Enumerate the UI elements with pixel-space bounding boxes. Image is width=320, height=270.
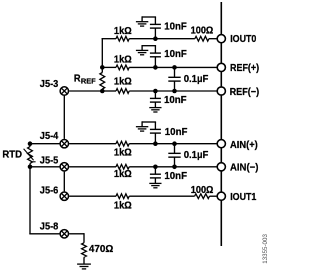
node junction rail row2 xyxy=(100,65,105,70)
label 1k row3 xyxy=(114,77,132,88)
svg-text:10nF: 10nF xyxy=(164,171,187,182)
label RTD xyxy=(2,149,22,160)
capacitor 0.1uF rows4-5 xyxy=(168,141,180,169)
label REF(+) xyxy=(230,63,259,74)
resistor 100 ohm row6 xyxy=(195,194,210,199)
wire row3 right segment xyxy=(129,90,217,92)
wire row6 middle segment xyxy=(129,195,194,197)
svg-text:J5-4: J5-4 xyxy=(40,131,59,142)
resistor RREF vertical xyxy=(100,67,105,91)
wire J5-5 to J5-6 xyxy=(63,172,65,192)
resistor 100 ohm row1 xyxy=(195,36,209,41)
wire row5 rail to J5-5 xyxy=(30,166,60,168)
capacitor 10nF row3 with ground below xyxy=(149,89,161,112)
terminal IOUT1 xyxy=(217,192,225,200)
capacitor 10nF row1 with ground xyxy=(136,16,161,41)
svg-text:100Ω: 100Ω xyxy=(191,185,214,196)
label 1k row1 xyxy=(114,26,132,37)
svg-text:J5-5: J5-5 xyxy=(40,155,59,166)
svg-text:1kΩ: 1kΩ xyxy=(114,77,132,88)
svg-text:1kΩ: 1kΩ xyxy=(114,54,132,65)
label AIN(-) xyxy=(230,163,258,174)
wire J5-3 to J5-4 xyxy=(63,96,65,139)
label 10nF row4 xyxy=(165,127,188,138)
connector J5-5 xyxy=(60,163,68,171)
connector J5-8 xyxy=(60,230,68,238)
svg-text:10nF: 10nF xyxy=(165,127,188,138)
resistor 1k row2 xyxy=(116,65,129,70)
resistor 1k row4 xyxy=(116,141,129,146)
label IOUT0 xyxy=(230,34,257,45)
label 0.1uF rows2-3 xyxy=(184,74,209,85)
svg-text:IOUT1: IOUT1 xyxy=(230,192,257,203)
wire row1 left segment from rail corner xyxy=(102,38,116,40)
wire row1 middle segment xyxy=(129,38,195,40)
svg-text:470Ω: 470Ω xyxy=(89,244,113,255)
label 470 ohm xyxy=(89,244,113,255)
label 0.1uF rows4-5 xyxy=(184,150,209,161)
label J5-8 xyxy=(40,222,59,233)
capacitor 0.1uF rows2-3 xyxy=(168,65,180,93)
label 1k row2 xyxy=(114,54,132,65)
svg-text:10nF: 10nF xyxy=(164,22,187,33)
svg-text:10nF: 10nF xyxy=(164,49,187,60)
wire row3 from J5-3 to rail xyxy=(69,90,102,92)
svg-text:RTD: RTD xyxy=(2,149,22,160)
label 100 ohm row6 xyxy=(191,185,214,196)
label 10nF row2 xyxy=(164,49,187,60)
label J5-5 xyxy=(40,155,59,166)
wire 470 ohm to ground xyxy=(83,257,85,264)
svg-text:REF(−): REF(−) xyxy=(230,87,260,98)
wire row6 left segment xyxy=(69,195,116,197)
wire row4 left segment xyxy=(69,143,116,145)
connector J5-4 xyxy=(60,140,68,148)
label 1k row5 xyxy=(114,169,132,180)
terminal AIN(-) xyxy=(217,163,225,171)
wire row4 rail to J5-4 xyxy=(30,143,60,145)
wire row4 right segment xyxy=(129,143,217,145)
wire row3 left segment xyxy=(102,90,116,92)
ground at 470 ohm xyxy=(77,264,91,269)
label 1k row4 xyxy=(114,148,132,159)
node junction rail row3 xyxy=(100,89,105,94)
capacitor 10nF row4 with ground xyxy=(136,121,161,146)
svg-text:10nF: 10nF xyxy=(164,95,187,106)
connector J5-6 xyxy=(60,192,68,200)
svg-text:1kΩ: 1kΩ xyxy=(114,148,132,159)
wire left rail row1-row2 xyxy=(101,38,103,67)
label J5-4 xyxy=(40,131,59,142)
svg-text:J5-6: J5-6 xyxy=(40,185,59,196)
wire J5-8 to 470 ohm xyxy=(69,233,84,243)
svg-text:1kΩ: 1kΩ xyxy=(114,201,132,212)
wire row2 right segment xyxy=(129,66,217,68)
svg-text:0.1µF: 0.1µF xyxy=(184,150,209,161)
svg-text:J5-3: J5-3 xyxy=(40,79,59,90)
resistor 1k row1 xyxy=(116,36,129,41)
wire left rail row5 to J5-8 row xyxy=(29,167,59,234)
terminal REF(+) xyxy=(217,63,225,71)
label IOUT1 xyxy=(230,192,257,203)
svg-text:100Ω: 100Ω xyxy=(191,25,214,36)
svg-text:REF(+): REF(+) xyxy=(230,63,259,74)
node junction left rail row4 xyxy=(28,141,33,146)
svg-text:1kΩ: 1kΩ xyxy=(114,26,132,37)
wire row2 left segment xyxy=(102,66,116,68)
resistor 470 ohm vertical xyxy=(82,243,87,257)
svg-text:REF: REF xyxy=(81,76,96,85)
label REF(-) xyxy=(230,87,260,98)
wire row5 left segment xyxy=(69,166,116,168)
connector J5-3 xyxy=(60,87,68,95)
wire row6 to terminal xyxy=(210,195,218,197)
label 10nF row1 xyxy=(164,22,187,33)
terminal REF(-) xyxy=(217,87,225,95)
resistor 1k row5 xyxy=(116,164,129,169)
svg-text:1kΩ: 1kΩ xyxy=(114,169,132,180)
resistor 1k row3 xyxy=(116,89,129,94)
svg-text:J5-8: J5-8 xyxy=(40,222,59,233)
capacitor 10nF row2 with ground xyxy=(136,45,161,70)
svg-text:0.1µF: 0.1µF xyxy=(184,74,209,85)
svg-text:AIN(+): AIN(+) xyxy=(230,140,258,151)
label 100 ohm row1 xyxy=(191,25,214,36)
label AIN(+) xyxy=(230,140,258,151)
capacitor 10nF row5 with ground below xyxy=(149,165,161,188)
wire row5 right segment xyxy=(129,166,217,168)
wire row1 to terminal xyxy=(209,38,217,40)
label J5-6 xyxy=(40,185,59,196)
terminal IOUT0 xyxy=(217,35,225,43)
svg-text:AIN(−): AIN(−) xyxy=(230,163,258,174)
right vertical bus wire xyxy=(220,2,222,246)
svg-text:13355-003: 13355-003 xyxy=(262,234,269,264)
label 10nF row3 xyxy=(164,95,187,106)
terminal AIN(+) xyxy=(217,140,225,148)
resistor 1k row6 xyxy=(116,194,129,199)
label J5-3 xyxy=(40,79,59,90)
fig number 13355-003 xyxy=(262,234,269,264)
node junction left rail row5 xyxy=(28,165,33,170)
svg-text:IOUT0: IOUT0 xyxy=(230,34,257,45)
label 1k row6 xyxy=(114,201,132,212)
resistor RTD vertical xyxy=(24,144,36,167)
label RREF xyxy=(74,74,96,86)
label 10nF row5 xyxy=(164,171,187,182)
